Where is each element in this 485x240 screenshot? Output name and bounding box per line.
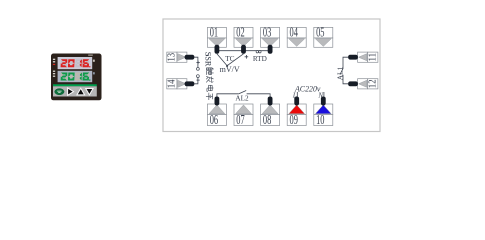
RTD sensor element symbol xyxy=(256,51,261,53)
terminal 14 screw symbol xyxy=(177,79,187,89)
terminal 14 number box xyxy=(166,79,177,89)
svg-text:13: 13 xyxy=(166,53,177,62)
SV display green digits 2016 xyxy=(61,73,91,81)
terminal lug pin 11 xyxy=(348,55,358,60)
SV display window xyxy=(58,71,93,82)
button right arrow xyxy=(68,88,74,95)
label AC220v xyxy=(294,84,321,93)
svg-text:07: 07 xyxy=(236,112,245,127)
controller body frame xyxy=(51,54,102,101)
terminal 04 screw symbol xyxy=(287,38,306,47)
svg-text:03: 03 xyxy=(263,25,272,40)
svg-text:TC: TC xyxy=(225,54,235,63)
label L xyxy=(292,93,297,100)
terminal 10 number box xyxy=(314,112,333,127)
svg-text:N: N xyxy=(317,93,323,100)
svg-text:09: 09 xyxy=(290,112,299,127)
terminal 13 screw symbol xyxy=(177,52,187,62)
terminal 05 number box xyxy=(314,25,333,40)
label RTD xyxy=(253,55,267,63)
set button green oval xyxy=(55,89,64,95)
terminal lug pin 08 xyxy=(268,97,273,106)
label TC xyxy=(225,54,235,63)
label AL2 xyxy=(235,95,249,103)
terminal lug pin 01 xyxy=(215,45,220,54)
svg-text:AC220v: AC220v xyxy=(294,84,321,93)
svg-text:06: 06 xyxy=(210,112,219,127)
wire SSR output 13-14 with plug contacts xyxy=(194,57,199,84)
svg-text:11: 11 xyxy=(367,53,378,62)
polarity plus at 02 xyxy=(245,55,249,59)
polarity plus at 13 xyxy=(196,61,199,64)
wire AL1 relay 11-12 with switch xyxy=(340,57,348,84)
terminal 03 number box xyxy=(261,25,280,40)
terminal lug pin 03 xyxy=(268,45,273,54)
svg-text:01: 01 xyxy=(210,25,218,40)
terminal panel outline xyxy=(163,19,380,132)
wire N to 10 xyxy=(323,92,325,97)
svg-text:14: 14 xyxy=(166,79,177,88)
svg-text:mV/V: mV/V xyxy=(220,65,240,74)
terminal lug pin 12 xyxy=(348,81,358,86)
svg-text:12: 12 xyxy=(367,79,378,88)
PV display window xyxy=(58,57,93,69)
svg-text:02: 02 xyxy=(236,25,244,40)
svg-text:L: L xyxy=(292,93,297,100)
svg-text:AL1: AL1 xyxy=(335,66,344,80)
terminal lug pin 06 xyxy=(215,97,220,106)
label AL1 xyxy=(335,66,344,80)
svg-text:08: 08 xyxy=(263,112,272,127)
terminal 06 screw symbol xyxy=(207,104,226,115)
terminal 11 number box xyxy=(367,52,378,62)
terminal lug pin 10 xyxy=(321,97,326,106)
terminal lug pin 13 xyxy=(185,55,195,60)
wire RTD bus 01-03 xyxy=(217,50,270,52)
terminal 02 screw symbol xyxy=(234,38,253,47)
svg-text:10: 10 xyxy=(316,112,325,127)
terminal 08 number box xyxy=(261,112,280,127)
terminal 01 number box xyxy=(207,25,226,40)
terminal 04 number box xyxy=(287,25,306,40)
terminal 08 screw symbol xyxy=(261,104,280,115)
terminal 09 number box xyxy=(287,112,306,127)
terminal lug pin 09 xyxy=(294,97,299,106)
button up arrow xyxy=(77,88,85,95)
label SSR trigger level (SSR trigger level) xyxy=(204,52,214,100)
terminal 11 screw symbol xyxy=(358,52,368,62)
svg-text:AL2: AL2 xyxy=(235,95,249,103)
unit indicator right xyxy=(93,60,95,75)
terminal 05 screw symbol xyxy=(314,38,333,47)
label mV/V xyxy=(220,65,240,74)
label N xyxy=(317,93,323,100)
wire AL2 relay 06-08 with switch xyxy=(217,91,270,97)
terminal 10 screw symbol xyxy=(314,104,333,115)
terminal 12 screw symbol xyxy=(358,79,368,89)
terminal 13 number box xyxy=(166,52,177,62)
polarity minus at 14 xyxy=(197,79,200,81)
polarity minus at 01 xyxy=(206,55,209,57)
terminal lug pin 14 xyxy=(185,81,195,86)
terminal 06 number box xyxy=(207,112,226,127)
svg-text:SSR: SSR xyxy=(204,52,213,67)
terminal 07 number box xyxy=(234,112,253,127)
button panel xyxy=(53,86,97,96)
thermocouple TC junction wires xyxy=(217,54,244,67)
terminal 09 screw symbol xyxy=(287,104,306,115)
svg-text:RTD: RTD xyxy=(253,55,267,63)
terminal lug pin 02 xyxy=(241,45,246,54)
controller model text xyxy=(88,55,93,56)
PV display red digits 2016 xyxy=(61,59,91,67)
button down arrow xyxy=(86,89,93,95)
green accent stripe xyxy=(53,84,97,86)
terminal 01 screw symbol xyxy=(207,38,226,47)
svg-text:04: 04 xyxy=(290,25,299,40)
wire L to 09 xyxy=(296,92,298,97)
status indicator labels xyxy=(53,59,55,77)
terminal 12 number box xyxy=(367,79,378,89)
terminal 03 screw symbol xyxy=(261,38,280,47)
svg-text:05: 05 xyxy=(316,25,325,40)
terminal 02 number box xyxy=(234,25,253,40)
terminal 07 screw symbol xyxy=(234,104,253,115)
